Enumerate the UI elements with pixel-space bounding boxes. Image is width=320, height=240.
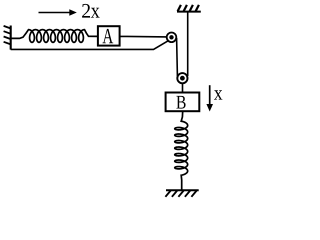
lower pulley: [177, 73, 187, 83]
block B: [166, 93, 200, 112]
spring (wall to block A): [12, 30, 98, 43]
label x: [214, 90, 222, 99]
ceiling (top right): [177, 5, 201, 12]
upper pulley: [167, 33, 177, 43]
wall (left): [4, 26, 11, 50]
label 2x: [82, 4, 100, 18]
block A: [98, 26, 120, 45]
string ceiling to lower pulley: [187, 12, 189, 76]
rod A to upper pulley axle: [120, 35, 168, 38]
arrow 2x (displacement of A): [39, 9, 77, 15]
spring (block B to ground): [175, 111, 188, 190]
ground (bottom): [165, 190, 198, 197]
arrow x (displacement of B): [206, 85, 213, 111]
string lower pulley to block B: [182, 83, 184, 92]
string wall to upper pulley (passes under A): [11, 41, 168, 50]
string upper pulley down to lower pulley: [176, 38, 179, 76]
